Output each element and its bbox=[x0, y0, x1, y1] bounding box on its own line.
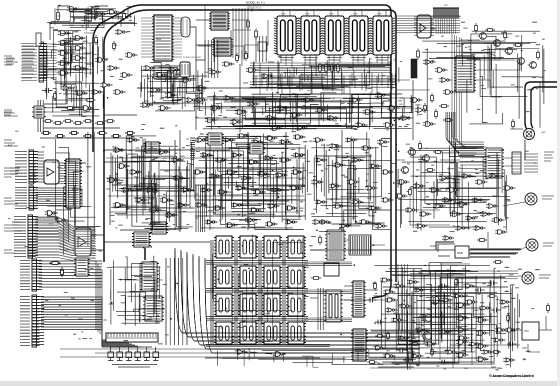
gate U3B bbox=[73, 36, 86, 41]
resistor RA4 bbox=[410, 343, 420, 346]
gate E6 bbox=[410, 98, 423, 103]
IC U24 bbox=[132, 232, 151, 247]
gate H17 bbox=[351, 200, 363, 204]
bus ram drops2 bbox=[262, 73, 392, 94]
wire bbox=[195, 215, 305, 217]
resistor RN5 bbox=[83, 120, 93, 123]
gate G6 bbox=[61, 86, 74, 91]
IC U23 bbox=[150, 222, 168, 234]
gate Y6 bbox=[391, 318, 403, 322]
gate S1 bbox=[442, 198, 455, 203]
gate R3 bbox=[429, 188, 442, 193]
wire long4 bbox=[310, 249, 455, 251]
gate TL1 bbox=[91, 90, 104, 95]
resistor RSB1 bbox=[477, 239, 487, 242]
gate Y2 bbox=[393, 284, 405, 288]
gate G2 bbox=[95, 12, 108, 17]
wire bbox=[40, 137, 135, 139]
link LK1 bbox=[108, 347, 114, 361]
IC U30 bbox=[454, 56, 476, 92]
wire bbox=[371, 244, 385, 246]
bus array col 2 bbox=[235, 240, 237, 344]
gate F7 bbox=[279, 140, 291, 144]
wire vertical bus lower-left bbox=[38, 100, 43, 132]
capacitor CA15 bbox=[475, 288, 485, 293]
label specks3 c bbox=[117, 137, 391, 226]
IC buffer 74LS244 B bbox=[75, 228, 91, 256]
IC U22 bbox=[144, 142, 161, 153]
wire bbox=[195, 167, 305, 169]
gate L11 bbox=[121, 188, 134, 193]
resistor RB1 bbox=[50, 262, 61, 265]
resistor RM7 bbox=[125, 132, 135, 135]
connector 1MHz bus bar bbox=[106, 333, 158, 342]
resistor RS2 bbox=[325, 63, 328, 74]
IC array overlay bbox=[216, 236, 232, 258]
wire bbox=[474, 80, 490, 95]
power connector bbox=[522, 272, 534, 284]
wire mesh ram underside bbox=[254, 61, 399, 90]
wire stepped overlay bbox=[436, 242, 521, 257]
gate N1 bbox=[235, 350, 248, 355]
gate K1 bbox=[45, 211, 58, 216]
gate C5 bbox=[150, 88, 163, 93]
label specks ram bbox=[255, 57, 402, 89]
wire mesh center field bbox=[199, 133, 303, 227]
resistor RTL1 bbox=[65, 107, 75, 110]
wire bbox=[49, 24, 51, 41]
IC RAM5 bar overlay bbox=[373, 16, 392, 55]
gate M1 bbox=[95, 58, 108, 63]
connector edge hatch bbox=[190, 138, 195, 158]
gate C8 bbox=[196, 86, 209, 91]
wire topleft lattice bbox=[51, 6, 130, 27]
gate L16 bbox=[113, 203, 126, 208]
wire bbox=[310, 249, 324, 251]
connector overlay SK2 bbox=[29, 152, 38, 182]
gate G7 bbox=[75, 91, 88, 96]
gate F11 bbox=[231, 153, 243, 157]
wire mesh2 midleft bbox=[116, 136, 196, 230]
gate K1 bbox=[45, 211, 58, 216]
gate X1 bbox=[115, 30, 128, 35]
gate F32 bbox=[249, 208, 261, 212]
gate C4 bbox=[181, 78, 194, 83]
wire bbox=[430, 245, 436, 247]
resistor RS3 bbox=[331, 63, 334, 74]
resistor RB2 bbox=[61, 267, 64, 277]
wire bbox=[195, 147, 305, 149]
connector overlay PL9 bbox=[32, 261, 42, 290]
wire bbox=[370, 329, 430, 331]
bus array row 1 bbox=[206, 261, 308, 265]
wire bbox=[439, 276, 441, 360]
connector SK2 bbox=[15, 150, 37, 184]
gate H1 bbox=[313, 138, 325, 142]
bus long bottom bbox=[60, 349, 420, 357]
wire long7 bbox=[195, 60, 197, 130]
gate A20 bbox=[495, 328, 507, 332]
gate D6 bbox=[327, 116, 340, 121]
wire bbox=[396, 159, 405, 161]
gate F26 bbox=[253, 190, 265, 194]
bus array col 4 bbox=[283, 240, 285, 344]
gate F16 bbox=[193, 170, 205, 174]
wire buffer pins bbox=[414, 17, 434, 35]
IC array overlay bbox=[264, 322, 280, 344]
wire bbox=[495, 48, 515, 60]
gate Y17 bbox=[481, 350, 493, 354]
gate L15 bbox=[177, 203, 190, 208]
gate Y13 bbox=[465, 300, 477, 304]
wire bbox=[109, 175, 111, 225]
white box PSU bbox=[522, 322, 539, 340]
wire bbox=[160, 169, 190, 171]
wire thick bus B (second rail) bbox=[104, 10, 396, 282]
inductor L1 comb bbox=[349, 235, 371, 255]
IC U71 bbox=[248, 143, 265, 154]
IC U33 crystal bbox=[325, 230, 346, 260]
gate P4 bbox=[456, 340, 469, 345]
wire mesh bottom-left mid bbox=[107, 256, 164, 326]
gate F14 bbox=[279, 158, 291, 162]
gate W2 bbox=[419, 212, 432, 216]
wire mesh array gaps bbox=[212, 235, 303, 342]
label specks3 a bbox=[49, 12, 132, 113]
wire bbox=[44, 92, 66, 104]
wire mesh2 right-mid bbox=[398, 145, 497, 227]
label din pins bbox=[524, 154, 538, 172]
gate C10 bbox=[158, 106, 171, 111]
wire bbox=[510, 128, 523, 130]
wire bbox=[289, 70, 291, 105]
label region bbox=[183, 57, 202, 59]
gate A2 bbox=[383, 290, 395, 294]
IC ROM3 bbox=[262, 236, 282, 258]
bus right bundle down bbox=[452, 34, 468, 148]
svg-text:© Acorn Computers Limited: © Acorn Computers Limited bbox=[489, 374, 534, 378]
IC ROM7 bbox=[262, 266, 282, 288]
resistor RN2 bbox=[53, 122, 63, 125]
gate F24 bbox=[217, 190, 229, 194]
bus bottom nested bbox=[175, 248, 420, 353]
gate D1 bbox=[265, 116, 278, 121]
IC under CPU bbox=[152, 66, 172, 79]
gate E7 bbox=[355, 123, 368, 128]
IC U42 bbox=[143, 296, 164, 321]
wire mesh topmid band2 bbox=[341, 92, 413, 129]
gate L4 bbox=[160, 198, 173, 203]
gate H6 bbox=[315, 158, 327, 162]
gate B3 bbox=[223, 96, 236, 101]
gate F19 bbox=[241, 176, 253, 180]
gate W1 bbox=[405, 208, 418, 212]
IC ROM5 bbox=[214, 266, 234, 288]
wire bbox=[233, 29, 251, 31]
gate R1 bbox=[397, 180, 410, 185]
gate F18 bbox=[225, 170, 237, 174]
IC ROM10 bbox=[238, 294, 258, 316]
label specks band bbox=[195, 91, 422, 132]
svg-text:ISSUE NO 1: ISSUE NO 1 bbox=[247, 6, 262, 10]
resistor RTL2 bbox=[54, 91, 57, 101]
gate L2 bbox=[129, 170, 142, 175]
IC ROM6 bbox=[238, 266, 258, 288]
label left margin 5 bbox=[4, 198, 18, 204]
IC buffer 74LS245 bbox=[417, 15, 431, 38]
gate S7 bbox=[480, 212, 493, 217]
label RAM2 bbox=[305, 14, 310, 16]
wire bbox=[195, 167, 305, 169]
connector SK4 keyboard bbox=[14, 215, 36, 258]
wire psu wires bbox=[510, 316, 552, 352]
wire mesh2 topleft bbox=[45, 34, 100, 117]
capacitor CA30 bbox=[488, 281, 498, 286]
capacitor CA21 bbox=[507, 342, 517, 347]
resistor RB2 bbox=[61, 267, 64, 277]
wire bbox=[196, 44, 214, 46]
gate Y15 bbox=[493, 338, 505, 342]
wire bbox=[204, 5, 206, 60]
gate H4 bbox=[361, 146, 373, 150]
link LK6 bbox=[153, 347, 159, 361]
gate F22 bbox=[291, 170, 303, 174]
wire mesh3 rightmid bbox=[402, 149, 505, 225]
gate P2 bbox=[456, 316, 469, 321]
gate F36 bbox=[225, 223, 237, 227]
resistor RM4 bbox=[83, 135, 93, 138]
wire cpu left pins bbox=[141, 18, 154, 57]
label din right bbox=[544, 152, 554, 161]
gate M5 bbox=[113, 90, 126, 95]
label RAM4 bbox=[353, 14, 358, 16]
resistor RM4 bbox=[83, 135, 93, 138]
gate B1 bbox=[195, 98, 208, 103]
wire bbox=[285, 132, 287, 230]
IC buffer 74LS244 A bbox=[44, 160, 59, 184]
gate TL2 bbox=[81, 106, 94, 111]
label RAM3 bbox=[329, 14, 334, 16]
wire bbox=[474, 60, 520, 70]
IC ROM7 bbox=[262, 266, 282, 288]
IC crystal buffer bbox=[181, 17, 190, 37]
IC RAM4 4164 bbox=[346, 16, 371, 60]
bus pl9 bbox=[39, 261, 102, 287]
gate F22 bbox=[291, 170, 303, 174]
gate B2 bbox=[210, 106, 223, 111]
gate S10 bbox=[473, 226, 486, 231]
IC RAM3 bar overlay bbox=[325, 16, 344, 55]
bus ram horizontals2 bbox=[252, 76, 396, 84]
IC U23 bbox=[150, 222, 168, 234]
gate F23 bbox=[200, 188, 212, 192]
gate H15 bbox=[315, 200, 327, 204]
gate F20 bbox=[257, 172, 269, 176]
bus pl10 bbox=[41, 297, 102, 330]
wire center runs bbox=[106, 158, 306, 212]
resistor R5 bbox=[85, 99, 96, 102]
gate H12 bbox=[329, 184, 341, 188]
IC ROM11 bbox=[262, 294, 282, 316]
resistor RV1 bbox=[512, 119, 515, 129]
capacitor CTL1 bbox=[42, 88, 53, 93]
gate H18 bbox=[369, 206, 381, 210]
resistor RN3 bbox=[63, 120, 73, 123]
resistor RM6 bbox=[111, 135, 121, 138]
wire bbox=[503, 202, 525, 206]
wire buffer pins bbox=[37, 152, 44, 182]
resistor RM5 bbox=[97, 132, 107, 135]
label note bbox=[112, 365, 157, 368]
gate F31 bbox=[231, 203, 243, 207]
resistor RU60 bbox=[311, 277, 321, 280]
wire mesh2 center-right bbox=[311, 140, 391, 227]
capacitor CA24 bbox=[439, 360, 449, 365]
IC U15 overlay bbox=[214, 38, 231, 56]
wire bbox=[471, 300, 473, 365]
wire mesh3 bottomleft bbox=[114, 260, 163, 325]
gate P8 bbox=[476, 344, 489, 349]
gate L18 bbox=[181, 188, 194, 193]
bus pl9 bend bbox=[96, 261, 102, 336]
gate Y11 bbox=[439, 330, 451, 334]
gate N2 bbox=[273, 352, 286, 357]
resistor RA16 bbox=[487, 295, 497, 298]
gate UA1 bbox=[222, 62, 235, 66]
IC U60 bbox=[324, 290, 343, 322]
gate B7 bbox=[230, 120, 243, 125]
IC buffer 74LS244 B bbox=[75, 228, 91, 256]
wire bbox=[518, 275, 522, 277]
IC ROM1 bbox=[214, 236, 234, 258]
gate H16 bbox=[333, 204, 345, 208]
wire bbox=[349, 75, 351, 108]
bus under RAM bbox=[250, 63, 391, 73]
IC RAM2 4164 bbox=[298, 16, 323, 60]
IC ROM12 bbox=[286, 294, 306, 316]
transistor QP2 bbox=[421, 332, 431, 340]
gate F23 bbox=[200, 188, 212, 192]
bus array col 1 bbox=[211, 240, 213, 344]
resistor RT6 bbox=[417, 49, 420, 60]
wire bbox=[452, 290, 454, 368]
bus array bottom bbox=[206, 345, 330, 347]
wire bbox=[198, 45, 211, 47]
wire bbox=[410, 198, 450, 225]
link LK3 bbox=[126, 347, 132, 361]
transistor Q4 bbox=[516, 58, 525, 65]
wire bbox=[50, 23, 137, 25]
bus pl10 bend bbox=[102, 297, 141, 347]
gate W8 bbox=[503, 186, 516, 190]
wire mesh3 bottomcenter bbox=[217, 348, 408, 366]
gate P9 bbox=[476, 357, 489, 362]
wire bbox=[247, 132, 249, 230]
wire bottom row bbox=[44, 127, 120, 129]
bus vert bundle bbox=[398, 264, 408, 340]
gate V1 bbox=[312, 220, 325, 225]
IC ROM9 bbox=[214, 294, 234, 316]
gate F19 bbox=[241, 176, 253, 180]
IC U62 bbox=[351, 329, 368, 361]
gate Y16 bbox=[505, 328, 517, 332]
gate S8 bbox=[492, 218, 505, 223]
gate Y4 bbox=[385, 298, 397, 302]
resistor RR1 bbox=[419, 141, 422, 151]
bus fan overlay bbox=[446, 112, 484, 153]
bus horiz to conn bbox=[410, 271, 518, 279]
bus right vert bundle bbox=[166, 258, 187, 345]
gate F9 bbox=[200, 153, 212, 157]
wire bbox=[340, 299, 398, 301]
label left margin 2 bbox=[4, 110, 18, 116]
gate W5 bbox=[461, 174, 474, 178]
gate L11 bbox=[121, 188, 134, 193]
wire bbox=[195, 199, 305, 201]
bus u15 verticals bbox=[205, 40, 218, 78]
wire thick stub bbox=[144, 248, 146, 260]
label bottom note bbox=[378, 364, 418, 367]
IC U14 bbox=[209, 12, 230, 30]
gate H20 bbox=[319, 220, 331, 224]
bus array row 3 bbox=[206, 317, 308, 321]
resistor RU5 bbox=[424, 103, 427, 113]
IC U15 bbox=[212, 38, 233, 56]
label cpu bbox=[156, 38, 162, 41]
IC ROM5 bbox=[214, 266, 234, 288]
gate Y1 bbox=[380, 278, 392, 282]
capacitor CA27 bbox=[367, 298, 377, 303]
label left margin 1 bbox=[4, 56, 18, 65]
wire band runs bbox=[196, 98, 416, 118]
IC RAM5 4164 bbox=[370, 16, 395, 60]
bus array row 2 bbox=[206, 289, 308, 293]
IC U42 bbox=[143, 296, 164, 321]
gate F25 bbox=[235, 186, 247, 190]
gate A26 bbox=[415, 328, 427, 332]
gate U4B bbox=[73, 46, 86, 51]
IC ROM10 bbox=[238, 294, 258, 316]
label pwr bbox=[539, 275, 551, 278]
wire bbox=[79, 97, 81, 110]
wire bbox=[120, 229, 170, 231]
gate A8 bbox=[373, 346, 385, 350]
gate G1 bbox=[67, 7, 80, 12]
gate F37 bbox=[245, 218, 257, 222]
connector SK3 bbox=[15, 186, 37, 210]
wire mesh3 midleft bbox=[111, 139, 192, 225]
label specks bottom-left bbox=[42, 269, 169, 339]
IC RAM3 4164 bbox=[322, 16, 347, 60]
bus keyboard fan overlay bbox=[36, 217, 97, 261]
bus right vert bundle bbox=[166, 258, 187, 345]
label specks right-mid bbox=[406, 144, 511, 231]
wire mesh3 center bbox=[203, 143, 306, 222]
IC buffer 74LS244 A bbox=[44, 160, 59, 184]
gate F29 bbox=[195, 203, 207, 207]
capacitor CA3 bbox=[397, 348, 407, 353]
wire mesh top-right bbox=[422, 41, 544, 128]
wire bbox=[450, 344, 520, 346]
wire bbox=[205, 357, 320, 359]
wire bbox=[110, 8, 128, 18]
gate N1 bbox=[235, 350, 248, 355]
gate F38 bbox=[265, 222, 277, 226]
wire bbox=[195, 184, 305, 186]
transistor Q3 bbox=[504, 48, 513, 55]
wire long3 bbox=[104, 241, 210, 243]
label specks3 d bbox=[372, 265, 539, 363]
